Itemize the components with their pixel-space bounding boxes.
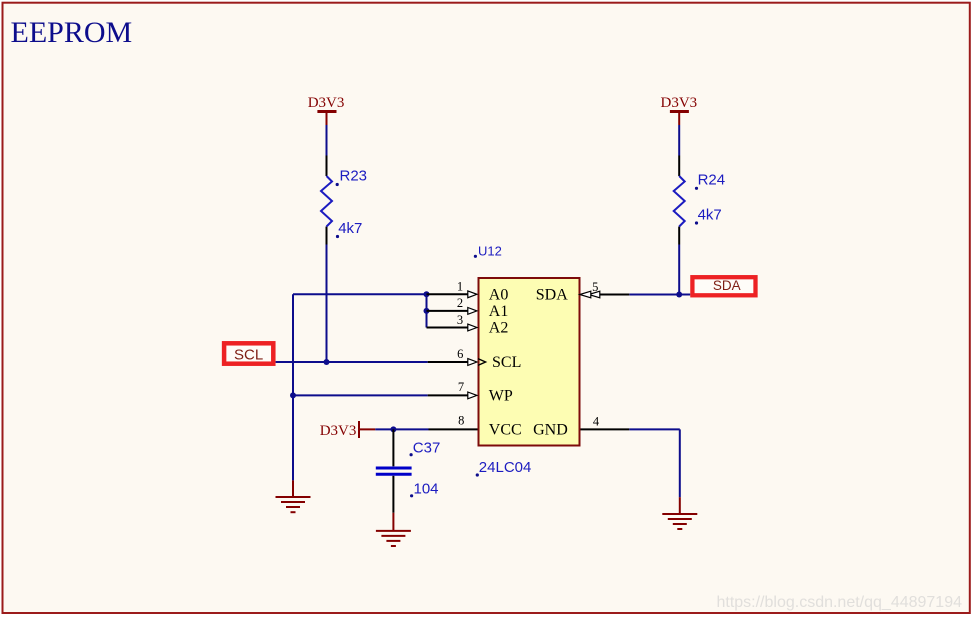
svg-text:GND: GND [533,422,568,439]
svg-text:SCL: SCL [234,346,263,363]
svg-text:A0: A0 [489,287,509,304]
svg-text:A2: A2 [489,320,509,337]
svg-text:D3V3: D3V3 [661,95,698,111]
svg-text:EEPROM: EEPROM [11,16,133,49]
svg-text:8: 8 [458,414,464,428]
svg-text:3: 3 [457,313,463,327]
svg-text:SDA: SDA [536,287,568,304]
svg-text:C37: C37 [413,439,441,456]
svg-text:104: 104 [414,480,439,497]
svg-text:2: 2 [457,296,463,310]
svg-text:VCC: VCC [489,422,522,439]
svg-text:5: 5 [592,280,598,294]
svg-text:SDA: SDA [713,278,741,293]
svg-text:D3V3: D3V3 [308,95,345,111]
svg-text:7: 7 [458,380,464,394]
svg-text:1: 1 [457,280,463,294]
svg-text:6: 6 [457,347,463,361]
svg-text:4k7: 4k7 [698,207,722,224]
svg-text:U12: U12 [478,244,502,259]
svg-text:24LC04: 24LC04 [479,459,532,476]
svg-text:SCL: SCL [492,354,521,371]
svg-text:R23: R23 [340,167,368,184]
svg-text:4k7: 4k7 [338,220,362,237]
svg-text:R24: R24 [698,172,726,189]
svg-text:4: 4 [593,414,600,428]
svg-text:D3V3: D3V3 [320,423,357,439]
svg-text:https://blog.csdn.net/qq_44897: https://blog.csdn.net/qq_44897194 [716,594,962,611]
svg-text:A1: A1 [489,303,509,320]
svg-text:WP: WP [489,388,513,405]
